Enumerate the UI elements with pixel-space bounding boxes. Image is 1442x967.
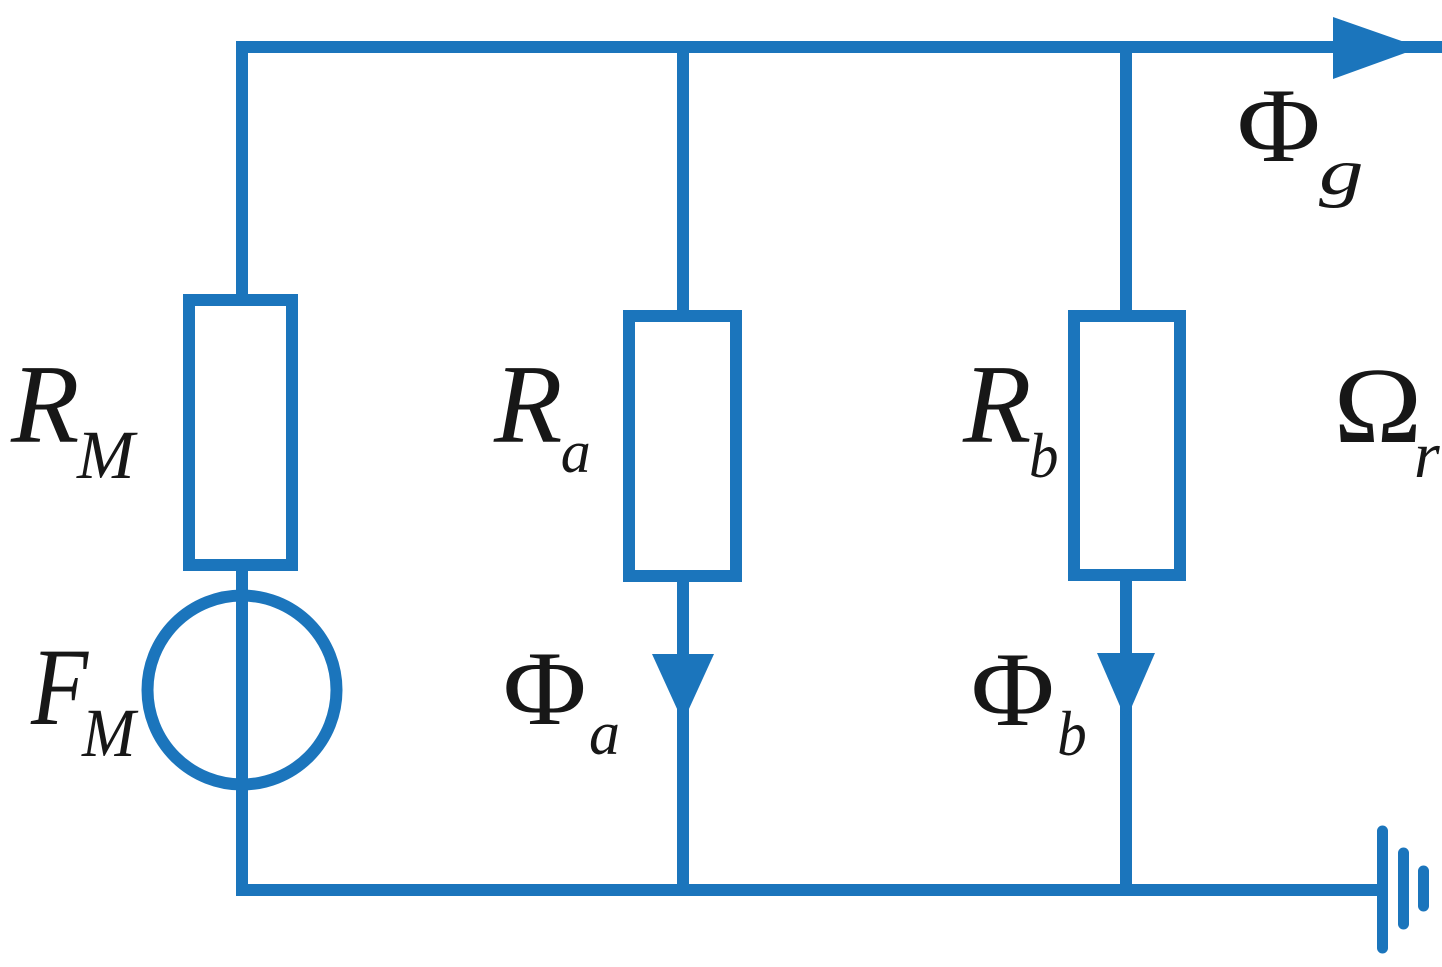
svg-text:M: M [81, 696, 139, 772]
svg-text:r: r [1414, 419, 1440, 492]
svg-text:Φ: Φ [971, 631, 1055, 748]
svg-text:a: a [561, 419, 591, 485]
svg-text:Ω: Ω [1334, 346, 1423, 466]
svg-text:R: R [962, 343, 1031, 467]
svg-text:b: b [1057, 699, 1086, 770]
svg-text:Φ: Φ [1237, 67, 1321, 184]
svg-text:R: R [10, 343, 79, 467]
svg-text:M: M [76, 417, 138, 493]
svg-text:a: a [589, 700, 620, 768]
svg-text:Φ: Φ [503, 630, 587, 747]
svg-text:g: g [1319, 135, 1364, 208]
svg-text:F: F [30, 627, 90, 749]
svg-text:R: R [493, 343, 562, 467]
svg-text:b: b [1029, 421, 1058, 492]
